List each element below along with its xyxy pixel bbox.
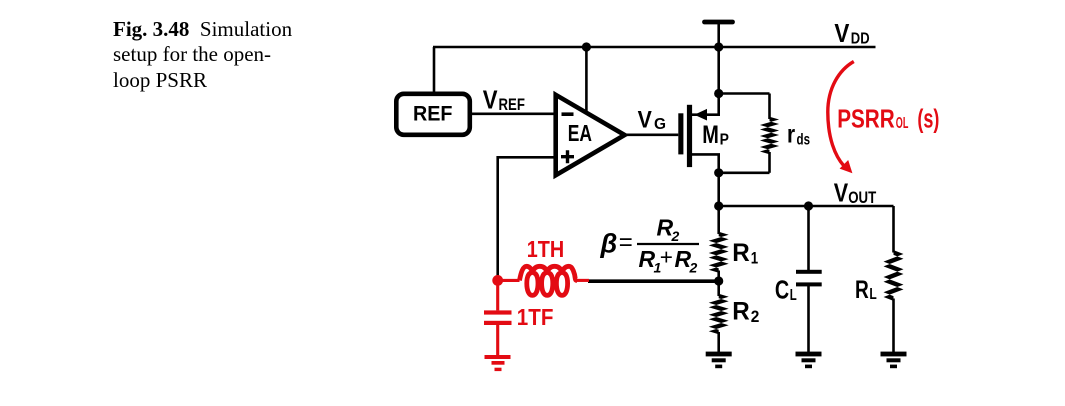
wire inductor right lead xyxy=(577,279,589,282)
ground below RL xyxy=(881,352,907,369)
ground below CL xyxy=(796,352,822,369)
wire VREF: REF output to EA inverting input xyxy=(472,113,556,116)
wire RL bottom lead xyxy=(892,299,895,353)
svg-text:2: 2 xyxy=(689,260,698,276)
label VDD xyxy=(834,18,869,48)
label VREF xyxy=(483,85,525,115)
REF block xyxy=(396,94,470,135)
svg-text:G: G xyxy=(654,116,666,133)
svg-text:R: R xyxy=(855,276,869,304)
svg-text:C: C xyxy=(775,275,789,305)
junction node VOUT xyxy=(714,201,723,210)
figure caption xyxy=(113,17,333,93)
wire inductor left lead xyxy=(498,279,520,282)
label VOUT xyxy=(834,178,877,208)
op-amp plus input sign xyxy=(561,150,574,163)
transistor MP gate bar xyxy=(678,113,683,154)
ground below R2 xyxy=(706,352,732,369)
junction node red feedback xyxy=(492,275,503,286)
wire R1-R2 middle leads xyxy=(717,271,720,297)
capacitor 1TF plates xyxy=(484,310,512,325)
wire VG: EA output to MP gate xyxy=(626,134,678,137)
resistor R2 xyxy=(709,294,729,335)
junction node MP drain xyxy=(714,168,723,177)
junction node CL tap xyxy=(804,201,813,210)
svg-text:PSRR: PSRR xyxy=(837,104,895,134)
svg-text:EA: EA xyxy=(568,120,592,146)
junction node MP source xyxy=(714,89,723,98)
wire node drain to rds bottom xyxy=(719,172,770,175)
junction node at EA supply xyxy=(582,42,591,51)
label CL xyxy=(775,275,797,305)
svg-text:r: r xyxy=(787,120,795,148)
wire REF box to rail xyxy=(433,47,436,92)
label MP xyxy=(702,121,729,149)
svg-text:=: = xyxy=(619,229,633,256)
wire drain to VOUT node xyxy=(717,173,720,206)
svg-text:REF: REF xyxy=(499,95,525,114)
svg-text:1TF: 1TF xyxy=(517,304,554,330)
wire node top to rds top xyxy=(719,92,770,95)
transistor MP channel bar xyxy=(687,105,692,167)
svg-text:+: + xyxy=(660,245,673,270)
svg-text:L: L xyxy=(790,287,797,304)
svg-text:R: R xyxy=(732,297,750,325)
wire R2 bottom lead xyxy=(717,332,720,352)
resistor R1 xyxy=(709,232,729,273)
equation beta = R2/(R1+R2) xyxy=(600,215,700,276)
arrow PSRR from VDD to VOUT xyxy=(828,62,854,174)
label R1 xyxy=(732,239,758,267)
wire feedback to EA non-inverting input xyxy=(498,157,556,276)
svg-text:L: L xyxy=(869,286,877,303)
svg-text:V: V xyxy=(483,85,498,115)
svg-text:V: V xyxy=(834,18,850,48)
svg-text:V: V xyxy=(638,106,653,133)
wire RL top lead xyxy=(892,206,895,253)
label rds xyxy=(787,120,810,148)
svg-text:β: β xyxy=(600,229,618,259)
wire rds top lead xyxy=(768,94,771,120)
svg-text:(s): (s) xyxy=(917,106,939,134)
svg-text:1: 1 xyxy=(751,249,758,267)
svg-text:REF: REF xyxy=(413,101,453,125)
svg-text:2: 2 xyxy=(751,308,760,326)
capacitor CL plates xyxy=(796,270,822,287)
svg-text:DD: DD xyxy=(851,31,870,48)
label VG xyxy=(638,106,666,133)
svg-text:R: R xyxy=(732,239,750,267)
label RL xyxy=(855,276,877,304)
svg-text:1TH: 1TH xyxy=(527,236,564,262)
svg-text:ds: ds xyxy=(797,131,811,148)
wire R1 top lead xyxy=(717,206,720,234)
svg-text:V: V xyxy=(834,178,849,208)
transistor MP source arrow xyxy=(694,109,707,121)
wire VOUT rail xyxy=(719,205,894,208)
resistor rds xyxy=(760,117,779,155)
svg-text:2: 2 xyxy=(671,228,680,244)
op-amp minus input sign xyxy=(562,112,574,116)
junction node at VDD supply xyxy=(714,42,723,51)
wire CL bottom lead xyxy=(807,286,810,352)
wire MP source to rail xyxy=(692,47,719,115)
svg-text:OL: OL xyxy=(896,115,909,132)
svg-text:OUT: OUT xyxy=(848,189,876,207)
power supply VDD symbol xyxy=(705,22,733,47)
wire 1TF cap bottom lead xyxy=(496,325,499,355)
svg-text:M: M xyxy=(702,121,719,149)
wire CL top lead xyxy=(807,206,810,270)
label PSRROL(s) xyxy=(837,104,939,134)
wire feedback node to divider xyxy=(588,279,719,283)
label R2 xyxy=(732,297,759,326)
op-amp EA triangle xyxy=(556,95,625,175)
junction node R1-R2 divider tap xyxy=(714,276,723,285)
wire 1TF cap top lead xyxy=(496,280,499,310)
wire VDD rail xyxy=(433,46,876,49)
resistor RL xyxy=(884,250,904,301)
wire MP drain down xyxy=(692,154,719,173)
inductor 1TH xyxy=(520,266,578,295)
svg-text:P: P xyxy=(720,132,729,149)
red feedback network xyxy=(498,266,589,355)
ground red below 1TF xyxy=(485,355,511,371)
wire rds bottom lead xyxy=(768,152,771,173)
wire EA supply from rail xyxy=(585,47,588,112)
